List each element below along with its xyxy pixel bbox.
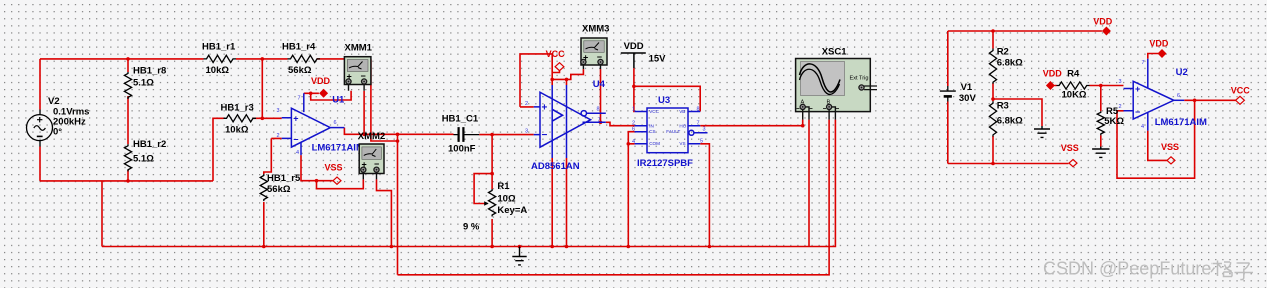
wire R2/R3 divider column (992, 31, 994, 164)
wire U3 pin5 VS to ground bus (700, 144, 709, 247)
svg-text:HB1_r4: HB1_r4 (282, 42, 316, 53)
VSS power tag right section (open diamond) (1069, 160, 1077, 167)
svg-text:VDD: VDD (1043, 69, 1063, 79)
wire XMM2 right lead to ground bus (377, 179, 392, 246)
svg-text:CSDN @PeepFuture: CSDN @PeepFuture (1043, 259, 1211, 279)
svg-text:8: 8 (697, 107, 700, 113)
svg-text:HB1_r5: HB1_r5 (267, 173, 301, 184)
svg-text:10KΩ: 10KΩ (1062, 90, 1087, 101)
svg-text:100nF: 100nF (448, 144, 476, 155)
svg-text:+: + (1135, 84, 1140, 94)
svg-text:VDD: VDD (311, 76, 331, 86)
svg-text:VDD: VDD (1149, 38, 1169, 48)
svg-text:7: 7 (697, 121, 700, 127)
wire R1 wiper loop (474, 174, 492, 204)
wire comparator +input riser to VCC (520, 54, 552, 107)
svg-text:30V: 30V (959, 93, 977, 104)
svg-text:Key=A: Key=A (497, 205, 527, 216)
svg-text:4: 4 (296, 150, 299, 156)
svg-text:COM: COM (649, 141, 660, 146)
svg-text:VCC: VCC (546, 49, 566, 59)
wire capacitor right to comparator -input (479, 134, 534, 136)
watermark CSDN @PeepFuture橙子 (1043, 259, 1253, 280)
multimeter XMM2 (drawn over LM6171AIM label) (359, 144, 384, 179)
svg-text:XSC1: XSC1 (822, 47, 848, 58)
svg-text:R1: R1 (497, 181, 510, 192)
svg-text:R5: R5 (1106, 106, 1119, 117)
wire XMM3 right lead down to comparator output (600, 69, 602, 122)
wire U2 pin7 to VDD diamond (1148, 54, 1158, 59)
svg-text:HB1_r8: HB1_r8 (133, 65, 166, 76)
wire R1 pot top/bottom leads (491, 135, 493, 247)
capacitor HB1_C1 (454, 127, 480, 142)
svg-text:3: 3 (1119, 79, 1122, 85)
svg-text:2: 2 (525, 101, 528, 107)
svg-text:VCC: VCC (1231, 85, 1251, 95)
op-amp U1 LM6171AIM (282, 93, 345, 155)
wire R5 column (1100, 86, 1102, 147)
svg-text:7: 7 (298, 96, 301, 102)
VDD 15V power rail symbol (621, 53, 646, 68)
ground (divider tap) (1034, 126, 1050, 137)
svg-text:5.1Ω: 5.1Ω (133, 153, 154, 164)
svg-text:LM6171AIM: LM6171AIM (312, 143, 364, 154)
svg-text:+: + (293, 113, 298, 123)
svg-text:VSS: VSS (325, 163, 343, 173)
wire U3 pin6 CS / pin4 COM to ground bus (628, 132, 634, 247)
VDD power tag at U1 (filled diamond) (319, 89, 328, 98)
resistor HB1_r4 (288, 55, 320, 62)
svg-text:U3: U3 (658, 95, 670, 106)
wire VCC column / comparator power pin 1 (551, 54, 553, 247)
svg-text:+: + (542, 103, 548, 114)
wire V1 column (947, 31, 949, 164)
svg-text:U2: U2 (1176, 67, 1188, 78)
V2 AC source (27, 110, 53, 147)
resistor HB1_r8 (124, 72, 131, 99)
svg-text:Ext Trig: Ext Trig (850, 76, 869, 82)
wire r4 feedback drop behind XMM1 (371, 59, 398, 141)
svg-text:FAULT: FAULT (666, 129, 680, 134)
svg-text:2: 2 (1119, 104, 1122, 110)
wire VDD 15V rail down to U3 pin1 and VB jumper (634, 68, 700, 111)
resistor R5 (1097, 111, 1104, 135)
svg-text:8: 8 (597, 107, 600, 113)
wire r1/r4 junction down to +input line (261, 59, 263, 118)
wire U2 output to VCC (1184, 99, 1236, 101)
potentiometer R1 (486, 189, 496, 217)
VCC power tag at U2 output (open diamond) (1236, 96, 1245, 104)
svg-text:VDD: VDD (624, 41, 644, 52)
svg-text:IN: IN (649, 124, 654, 129)
svg-text:6: 6 (334, 120, 337, 126)
svg-text:5: 5 (700, 138, 703, 144)
battery V1 (940, 86, 956, 102)
wire to HB1_r3 and to U1 +input (213, 118, 282, 181)
resistor HB1_r5 (260, 174, 267, 201)
svg-text:XMM2: XMM2 (358, 131, 385, 142)
resistor HB1_r1 (204, 55, 236, 62)
wire V2 top lead (39, 59, 41, 110)
svg-text:U4: U4 (593, 79, 606, 90)
wire U2 feedback loop (1117, 100, 1195, 178)
svg-text:R4: R4 (1067, 69, 1080, 80)
wire comparator output to U3 pin2 (606, 122, 635, 125)
svg-text:−: − (1135, 107, 1140, 117)
svg-text:9 %: 9 % (463, 222, 480, 233)
svg-text:HB1_r1: HB1_r1 (202, 42, 236, 53)
svg-text:6.8kΩ: 6.8kΩ (997, 115, 1023, 126)
svg-text:0°: 0° (53, 127, 62, 138)
wire V2 bottom lead to bottom-left node (39, 147, 41, 181)
wire ground-bus left riser (101, 181, 103, 247)
svg-text:7: 7 (1142, 60, 1145, 66)
wire U2 pin4 to VSS diamond (1148, 131, 1167, 161)
svg-text:R2: R2 (997, 47, 1009, 58)
svg-text:4: 4 (632, 139, 635, 145)
IC U3 IR2127SPBF (635, 108, 708, 153)
svg-text:AD8561AN: AD8561AN (531, 161, 580, 172)
VSS power tag at U1 (open diamond) (333, 177, 341, 184)
svg-text:HB1_r2: HB1_r2 (133, 139, 166, 150)
svg-text:HB1_C1: HB1_C1 (442, 114, 479, 125)
resistor HB1_r3 (224, 115, 256, 122)
svg-text:HB1_r3: HB1_r3 (221, 103, 254, 114)
svg-text:R3: R3 (997, 101, 1009, 112)
svg-text:VSS: VSS (1161, 142, 1179, 152)
wire XSC1 A- lead to ground bus (808, 120, 810, 247)
svg-text:10kΩ: 10kΩ (225, 125, 249, 136)
wire U1 pin4 to VSS and XMM2 left (301, 155, 363, 189)
ground (bottom center) (512, 247, 526, 265)
wire U1 pin7 to VDD and XMM1 left (304, 91, 351, 100)
wire U3 pin7 HO to XSC1 channel A (700, 125, 803, 127)
svg-text:2: 2 (277, 133, 280, 139)
svg-text:6: 6 (1177, 93, 1180, 99)
svg-text:4: 4 (1141, 124, 1144, 130)
resistor R3 (989, 101, 996, 136)
svg-text:V1: V1 (961, 82, 973, 93)
svg-text:VSS: VSS (1061, 143, 1079, 153)
wire lower bus to XSC1 channel B (398, 120, 830, 275)
multimeter XMM1 (344, 57, 371, 91)
svg-text:10Ω: 10Ω (497, 194, 516, 205)
svg-text:XMM1: XMM1 (345, 43, 373, 54)
svg-text:V2: V2 (48, 96, 60, 107)
svg-text:3: 3 (525, 129, 528, 135)
wire segments (red nets) (40, 31, 1236, 275)
wire divider mid tap to ground (993, 99, 1042, 126)
wire output drop to lower bus (397, 134, 399, 274)
svg-text:VDD: VDD (1093, 17, 1113, 27)
VDD power tag top right (filled diamond) (1102, 27, 1111, 36)
svg-text:15V: 15V (649, 54, 667, 65)
VSS power tag at U2 (open diamond) (1167, 157, 1175, 164)
wire XSC1 A+ lead (802, 120, 804, 126)
comparator U4 AD8561AN (534, 85, 606, 158)
resistor R2 (989, 49, 996, 84)
svg-text:−: − (293, 135, 298, 145)
resistor HB1_r2 (124, 144, 131, 171)
svg-text:3: 3 (703, 127, 706, 133)
svg-text:5.1Ω: 5.1Ω (133, 78, 154, 89)
svg-text:IR2127SPBF: IR2127SPBF (637, 158, 693, 169)
svg-text:VCC: VCC (649, 109, 659, 114)
svg-text:CS: CS (649, 129, 655, 134)
svg-text:XMM3: XMM3 (582, 24, 609, 35)
svg-text:U1: U1 (332, 95, 345, 106)
VDD power tag at U2 (filled diamond) (1158, 49, 1167, 58)
wire VDD diamond to R4 to U2 +input (1055, 85, 1124, 87)
svg-text:6.8kΩ: 6.8kΩ (997, 58, 1023, 69)
wire right section top bus V1+ to VDD (948, 30, 1102, 32)
resistor R4 (1057, 82, 1090, 89)
svg-text:56kΩ: 56kΩ (267, 184, 291, 195)
ground (below R5) (1092, 147, 1109, 158)
multimeter XMM3 (581, 38, 607, 69)
svg-text:56kΩ: 56kΩ (288, 65, 312, 76)
svg-text:VB: VB (679, 109, 685, 114)
svg-text:HO: HO (679, 124, 686, 129)
op-amp U2 LM6171AIM (1124, 59, 1185, 131)
wire VCC horizontal to XMM3 left (552, 69, 583, 79)
oscilloscope XSC1 (796, 59, 877, 120)
VCC power tag at comparator (open diamond) (555, 63, 564, 71)
svg-text:VS: VS (679, 141, 685, 146)
wire U1 -input to HB1_r5 chain (264, 138, 282, 246)
wire comparator power pin 2 column (566, 79, 568, 246)
wire ground bus (102, 120, 835, 247)
wire HB1_r8/HB1_r2 divider column (127, 59, 129, 181)
wire top bus from V2 top through HB1_r1/HB1_r4 to XMM1 (40, 58, 344, 60)
svg-text:7: 7 (598, 118, 601, 124)
svg-text:3: 3 (277, 108, 280, 114)
wire U1 output to capacitor line (344, 128, 453, 135)
svg-text:1: 1 (632, 107, 635, 113)
svg-text:6: 6 (632, 127, 635, 133)
VDD power tag feeding R4 (filled diamond) (1046, 81, 1055, 90)
wire bottom-left horizontal node y=181 (40, 180, 213, 182)
wire XMM1 right lead down to output line (363, 91, 365, 135)
svg-text:10kΩ: 10kΩ (206, 65, 230, 76)
svg-text:LM6171AIM: LM6171AIM (1155, 117, 1207, 128)
svg-text:−: − (542, 130, 548, 141)
wire VCC diamond elbow (552, 71, 559, 73)
wire V1 bottom bus to VSS (948, 163, 1069, 165)
svg-text:5KΩ: 5KΩ (1104, 116, 1124, 127)
